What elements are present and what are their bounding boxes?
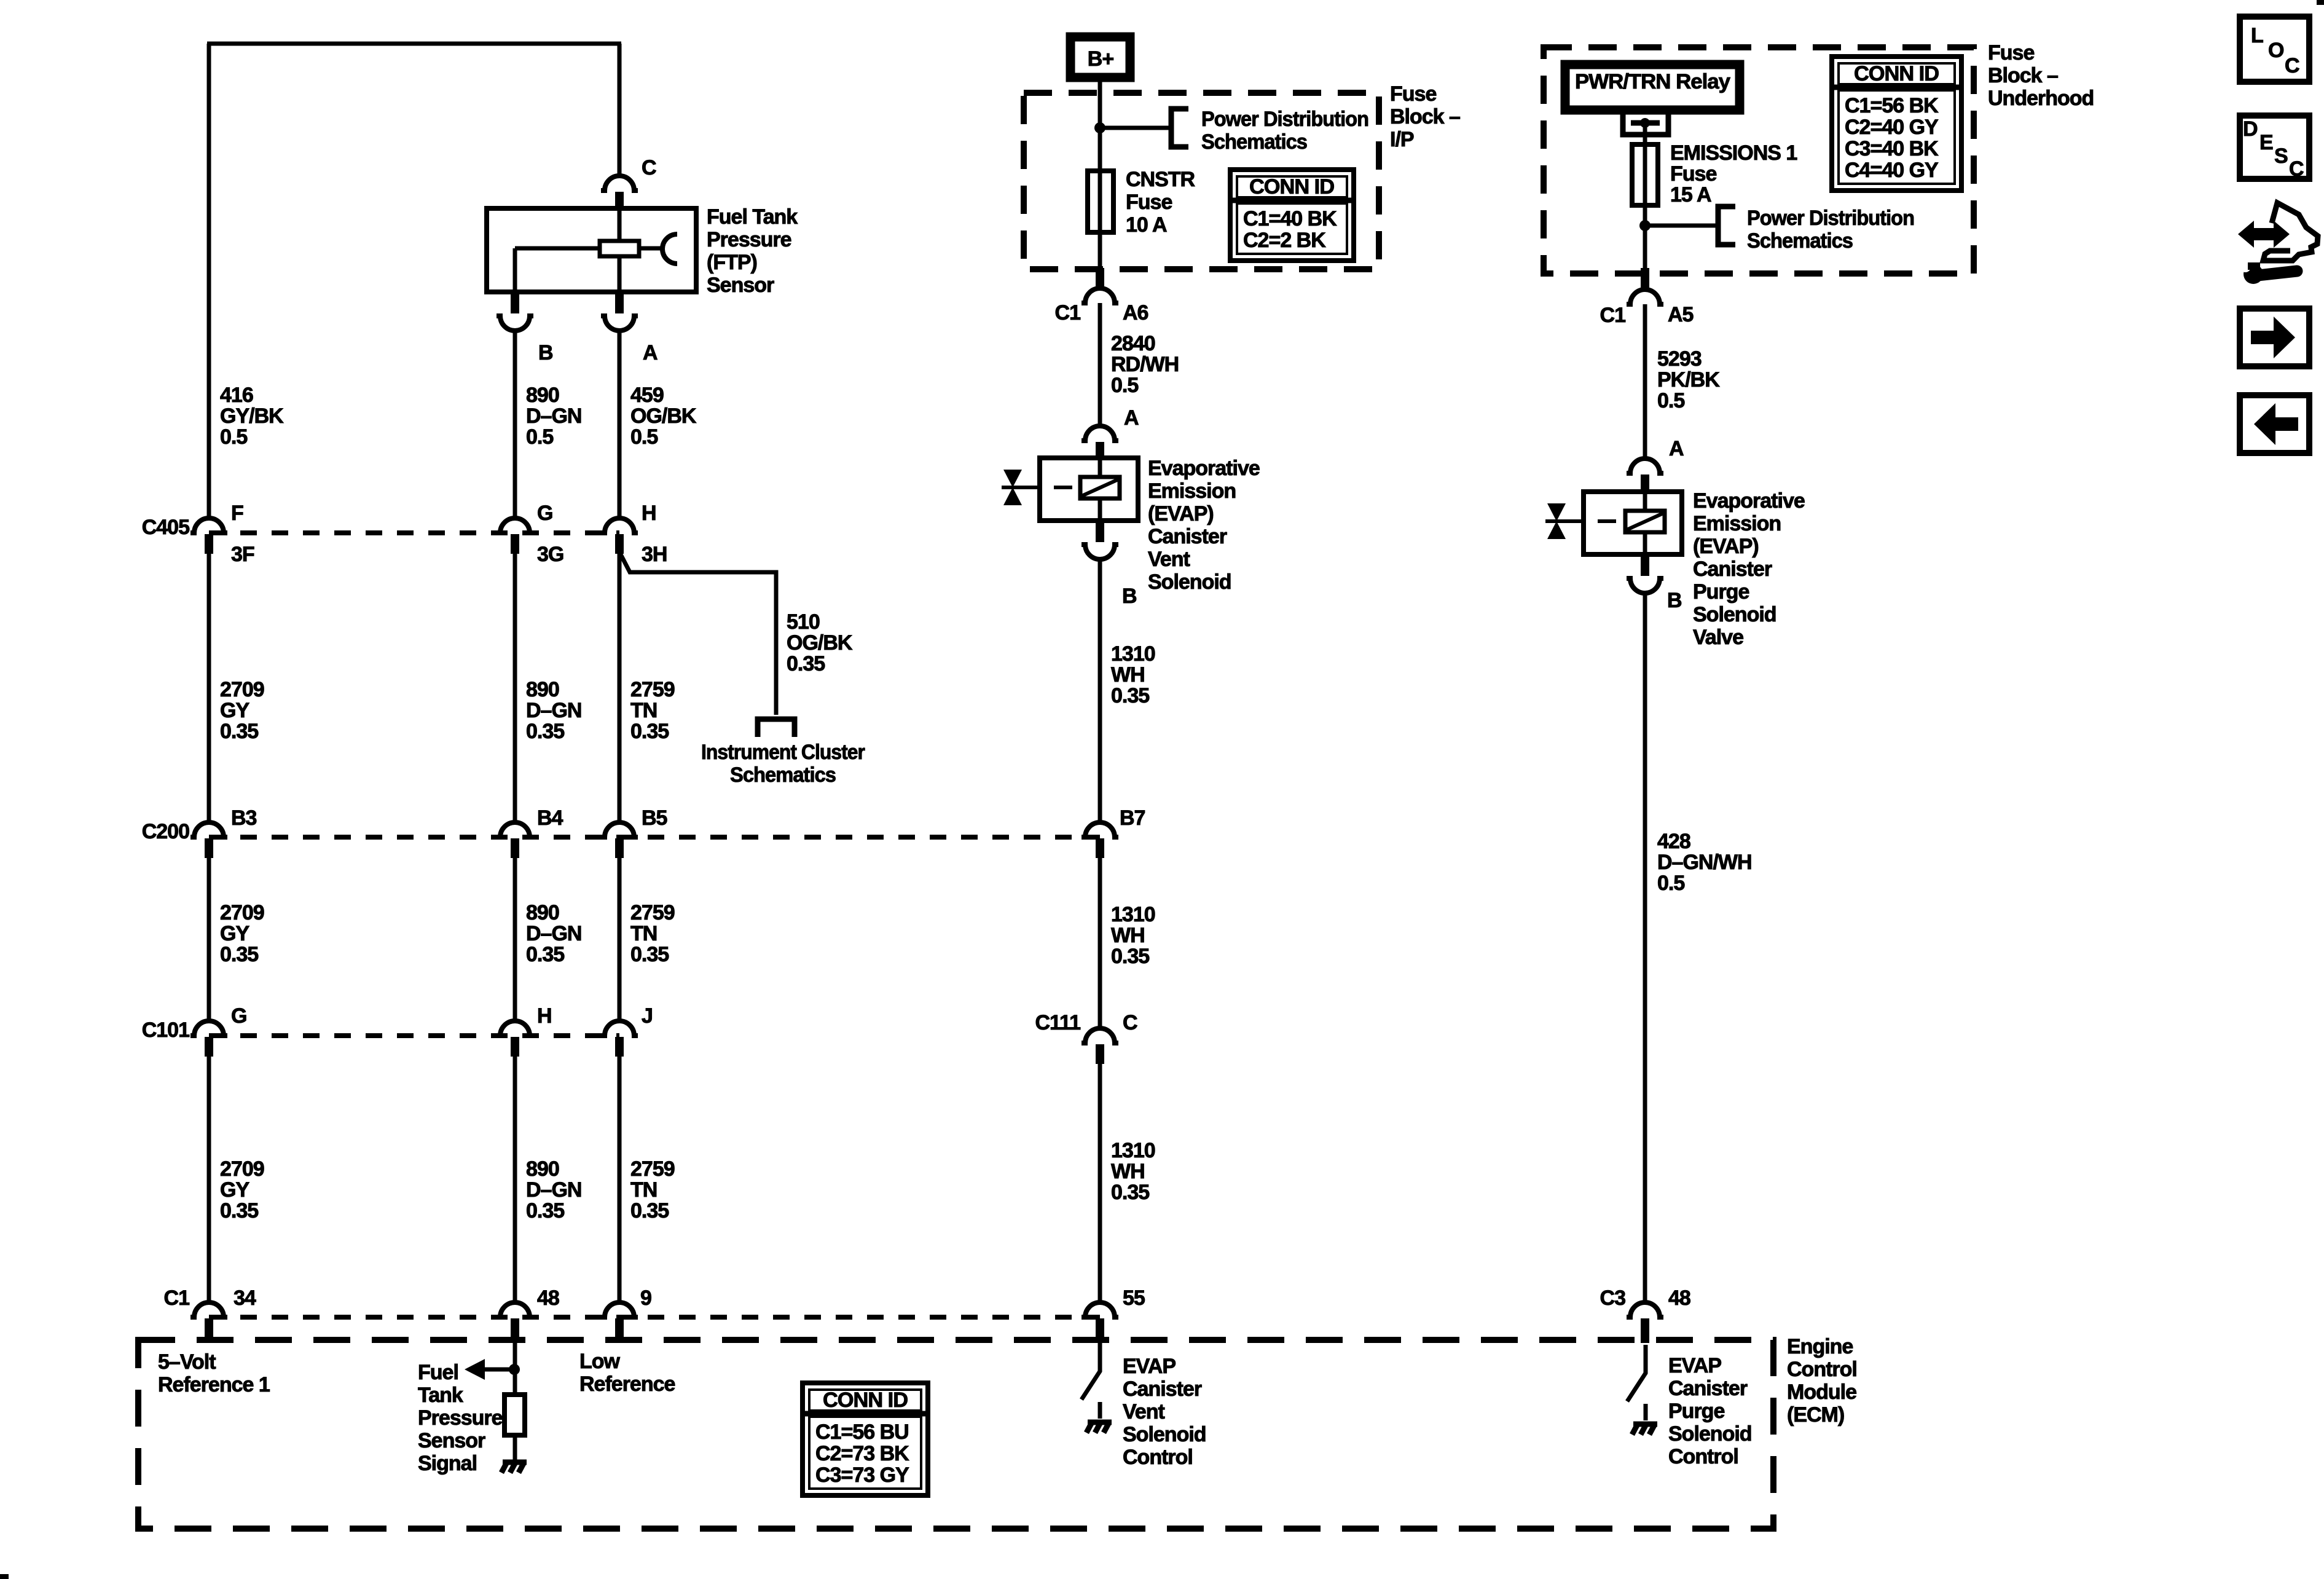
- svg-text:A6: A6: [1123, 301, 1148, 325]
- ground: vent solenoid control driver: [1086, 1422, 1112, 1433]
- label: EMISSIONS 1 Fuse 15 A: [1670, 141, 1797, 207]
- svg-text:GY: GY: [220, 922, 249, 945]
- svg-text:CONN ID: CONN ID: [1854, 62, 1939, 85]
- svg-text:Vent: Vent: [1123, 1400, 1164, 1423]
- svg-text:WH: WH: [1111, 1160, 1145, 1183]
- svg-text:C1=56 BU: C1=56 BU: [815, 1420, 909, 1444]
- wire: ECM pin 48 to internal pull-up resistor: [513, 1342, 517, 1395]
- svg-text:2840: 2840: [1111, 332, 1155, 355]
- svg-text:C405: C405: [142, 516, 189, 539]
- icon: arrow previous page: [2240, 395, 2309, 453]
- wire: top jumper from 5V-ref column to FTP pin C column: [207, 42, 621, 46]
- connector pin B of EVAP purge solenoid: [1641, 554, 1649, 576]
- svg-text:B7: B7: [1120, 806, 1145, 830]
- svg-text:C3: C3: [1600, 1286, 1626, 1310]
- svg-text:890: 890: [526, 678, 559, 701]
- switch: EVAP canister vent solenoid control driver: [1082, 1343, 1100, 1400]
- connector C405 cavity H: [601, 518, 638, 533]
- svg-text:Tank: Tank: [418, 1384, 463, 1407]
- fuse block underhood (dashed box): [1544, 47, 1974, 274]
- svg-text:I/P: I/P: [1390, 128, 1414, 151]
- table: CONN ID (fuse block underhood): [1832, 57, 1961, 191]
- ground: FTP signal pull-up: [501, 1462, 527, 1473]
- resistor: ECM internal pull-up: [504, 1395, 525, 1435]
- svg-text:416: 416: [220, 384, 253, 407]
- wire label: 459 OG/BK 0.5: [630, 384, 697, 449]
- off-page bracket: instrument cluster schematics: [755, 719, 797, 737]
- wire 5293 PK/BK: A5 down to EVAP purge solenoid pin A: [1643, 304, 1647, 458]
- wire: junction to power distribution off-page: [1645, 224, 1718, 228]
- svg-text:Fuel: Fuel: [418, 1361, 458, 1384]
- svg-text:GY/BK: GY/BK: [220, 404, 284, 428]
- svg-text:Canister: Canister: [1668, 1377, 1748, 1400]
- PWR/TRN relay box: [1565, 65, 1740, 110]
- wire: B+ down to CNSTR fuse: [1098, 82, 1102, 171]
- svg-text:Pressure: Pressure: [418, 1406, 503, 1430]
- svg-text:890: 890: [526, 384, 559, 407]
- wire: junction to power distribution off-page: [1100, 126, 1171, 130]
- off-page reference: power distribution schematics (I/P): [1171, 109, 1188, 147]
- svg-text:48: 48: [537, 1286, 559, 1310]
- wire label: 2709 GY 0.35 (C200-C101): [220, 901, 264, 966]
- svg-text:B: B: [538, 341, 553, 364]
- svg-text:G: G: [537, 502, 552, 525]
- wire 1310 WH: C200 B7 down to C111 C: [1098, 858, 1102, 1028]
- svg-text:Engine: Engine: [1787, 1335, 1853, 1358]
- wire 890 D-GN: C101 H down to ECM pin 48: [513, 1057, 517, 1302]
- svg-text:WH: WH: [1111, 663, 1145, 687]
- svg-text:WH: WH: [1111, 924, 1145, 947]
- ECM connector C1 row (dotted): [209, 1315, 1100, 1320]
- wire: vertical down to FTP sensor pin C: [618, 44, 622, 176]
- wire label: 416 GY/BK 0.5: [220, 384, 284, 449]
- svg-text:H: H: [642, 502, 656, 525]
- wire label: 890 D-GN 0.35 (C405-C200): [526, 678, 581, 743]
- off-page reference: power distribution schematics (underhood): [1718, 207, 1735, 245]
- svg-text:J: J: [642, 1004, 653, 1028]
- wire 510 OG/BK: branch from 3H to instrument cluster: [619, 552, 776, 715]
- svg-text:TN: TN: [630, 1178, 657, 1202]
- wire label: 428 D-GN/WH 0.5: [1657, 830, 1752, 895]
- connector pin A of FTP sensor: [615, 292, 624, 313]
- ECM connector C1 pin 48: [497, 1302, 533, 1317]
- label: Fuel Tank Pressure (FTP) Sensor: [707, 205, 798, 297]
- fuse: EMISSIONS 1 Fuse 15 A: [1643, 123, 1647, 205]
- svg-text:0.5: 0.5: [1111, 374, 1138, 397]
- svg-text:15 A: 15 A: [1670, 183, 1711, 207]
- svg-text:Fuse: Fuse: [1126, 191, 1172, 214]
- connector C405 cavity G: [497, 518, 533, 533]
- svg-text:459: 459: [630, 384, 664, 407]
- wire label: 2759 TN 0.35 (C405-C200): [630, 678, 675, 743]
- svg-text:EMISSIONS 1: EMISSIONS 1: [1670, 141, 1797, 165]
- svg-text:Control: Control: [1123, 1446, 1193, 1469]
- svg-text:510: 510: [787, 610, 820, 634]
- svg-text:10 A: 10 A: [1126, 213, 1167, 237]
- svg-text:0.35: 0.35: [526, 943, 564, 966]
- svg-text:Power Distribution: Power Distribution: [1747, 207, 1914, 230]
- svg-text:2759: 2759: [630, 1157, 675, 1181]
- icon: DESC box: [2240, 116, 2309, 181]
- svg-text:3G: 3G: [537, 543, 563, 566]
- wire label: 510 OG/BK 0.35: [787, 610, 853, 675]
- label: EVAP Canister Purge Solenoid Control: [1668, 1354, 1752, 1468]
- svg-text:O: O: [2268, 39, 2284, 62]
- svg-text:(ECM): (ECM): [1787, 1403, 1844, 1427]
- label: CNSTR Fuse 10 A: [1126, 168, 1195, 237]
- svg-text:1310: 1310: [1111, 642, 1155, 666]
- svg-text:890: 890: [526, 1157, 559, 1181]
- svg-text:Reference 1: Reference 1: [158, 1373, 270, 1396]
- svg-text:B3: B3: [231, 806, 257, 830]
- svg-text:0.35: 0.35: [630, 1199, 669, 1223]
- svg-text:C1: C1: [1600, 304, 1626, 327]
- svg-text:H: H: [537, 1004, 552, 1028]
- svg-text:OG/BK: OG/BK: [787, 631, 853, 655]
- svg-text:0.35: 0.35: [787, 652, 825, 675]
- engine control module ECM (dashed box): [138, 1340, 1773, 1529]
- connector pin A of EVAP vent solenoid: [1082, 426, 1118, 441]
- svg-text:Fuse: Fuse: [1670, 162, 1716, 186]
- junction: fuse output to power distribution: [1639, 220, 1651, 231]
- label: Engine Control Module (ECM): [1787, 1335, 1857, 1427]
- relay contact symbol: [1623, 114, 1668, 135]
- wire 416 GY/BK: left vertical down to connector C405 pin F: [207, 44, 211, 518]
- svg-text:1310: 1310: [1111, 1139, 1155, 1162]
- svg-text:3H: 3H: [642, 543, 667, 566]
- label: Fuse Block - Underhood: [1988, 41, 2094, 110]
- svg-text:3F: 3F: [231, 543, 254, 566]
- wire 890 D-GN: C200 B4 down to C101 H: [513, 858, 517, 1021]
- svg-text:2759: 2759: [630, 901, 675, 924]
- svg-text:Solenoid: Solenoid: [1123, 1423, 1206, 1446]
- svg-text:0.35: 0.35: [1111, 684, 1149, 707]
- svg-text:0.35: 0.35: [220, 720, 258, 743]
- svg-text:C: C: [642, 156, 656, 179]
- svg-text:PK/BK: PK/BK: [1657, 368, 1720, 392]
- wire label: 1310 WH 0.35 (C111-ECM): [1111, 1139, 1155, 1204]
- wire 1310 WH: vent solenoid B down to C200 B7: [1098, 559, 1102, 822]
- wire 890 D-GN: FTP pin B down to C405 pin G: [513, 331, 517, 518]
- svg-text:C2=2 BK: C2=2 BK: [1243, 229, 1326, 252]
- svg-text:OG/BK: OG/BK: [630, 404, 697, 428]
- svg-text:Emission: Emission: [1148, 479, 1236, 503]
- wire 2709 GY: C200 B3 down to C101 G: [207, 858, 211, 1021]
- label: Fuse Block - I/P: [1390, 82, 1460, 151]
- svg-text:Block –: Block –: [1390, 105, 1460, 128]
- svg-text:Underhood: Underhood: [1988, 87, 2094, 110]
- svg-text:2709: 2709: [220, 1157, 264, 1181]
- svg-text:D–GN: D–GN: [526, 404, 581, 428]
- svg-text:Sensor: Sensor: [707, 274, 774, 297]
- connector pin A of EVAP purge solenoid: [1627, 459, 1663, 473]
- svg-text:GY: GY: [220, 699, 249, 722]
- valve symbol (purge solenoid): [1545, 503, 1568, 539]
- icon: vehicle data (car, double arrow, wrench): [2238, 203, 2318, 284]
- svg-text:Canister: Canister: [1148, 525, 1227, 548]
- svg-text:Low: Low: [579, 1350, 621, 1373]
- svg-text:0.35: 0.35: [220, 1199, 258, 1223]
- svg-text:TN: TN: [630, 922, 657, 945]
- signal arrow: fuel tank pressure sensor signal: [465, 1359, 514, 1380]
- svg-text:0.35: 0.35: [526, 720, 564, 743]
- svg-text:C: C: [1123, 1011, 1137, 1034]
- svg-text:1310: 1310: [1111, 903, 1155, 926]
- ground: purge solenoid control driver: [1632, 1424, 1657, 1435]
- svg-text:Sensor: Sensor: [418, 1429, 485, 1452]
- wire: CNSTR fuse to connector C1 A6: [1098, 232, 1102, 268]
- EVAP canister vent solenoid (coil): [1022, 458, 1138, 521]
- svg-text:Signal: Signal: [418, 1452, 477, 1475]
- table: CONN ID (fuse block I/P): [1230, 170, 1354, 261]
- wire 2759 TN: C405 H down to C200 B5: [618, 554, 622, 822]
- svg-text:5293: 5293: [1657, 347, 1702, 371]
- wire label: 2840 RD/WH 0.5: [1111, 332, 1179, 397]
- svg-text:Control: Control: [1668, 1445, 1738, 1468]
- connector C405 cavity F: [190, 518, 227, 533]
- svg-text:890: 890: [526, 901, 559, 924]
- label: 5-Volt Reference 1: [158, 1350, 270, 1396]
- svg-text:S: S: [2274, 144, 2288, 168]
- fuse: CNSTR Fuse 10 A: [1088, 171, 1113, 232]
- svg-text:Valve: Valve: [1693, 626, 1743, 649]
- svg-text:2709: 2709: [220, 678, 264, 701]
- svg-text:Schematics: Schematics: [730, 763, 836, 787]
- svg-text:D–GN: D–GN: [526, 922, 581, 945]
- svg-text:C1: C1: [1055, 301, 1081, 325]
- svg-text:0.35: 0.35: [1111, 945, 1149, 968]
- svg-text:A5: A5: [1668, 303, 1694, 326]
- connector C101 cavity G: [190, 1021, 227, 1036]
- wire label: 2759 TN 0.35 (C101-ECM): [630, 1157, 675, 1223]
- svg-text:0.5: 0.5: [630, 425, 658, 449]
- connector C200 cavity B5: [601, 822, 638, 837]
- battery feed B+ symbol: [1070, 37, 1130, 77]
- wire 2759 TN: C101 J down to ECM pin 9: [618, 1057, 622, 1302]
- connector C200 cavity B4: [497, 822, 533, 837]
- svg-text:Fuel Tank: Fuel Tank: [707, 205, 798, 229]
- svg-text:Schematics: Schematics: [1201, 130, 1307, 154]
- svg-text:9: 9: [640, 1286, 651, 1310]
- svg-text:Canister: Canister: [1693, 557, 1772, 581]
- ECM connector C1 pin 34: [190, 1302, 227, 1317]
- label: EVAP Canister Purge Solenoid Valve: [1693, 489, 1805, 649]
- svg-text:RD/WH: RD/WH: [1111, 353, 1179, 376]
- svg-text:Instrument Cluster: Instrument Cluster: [701, 741, 865, 764]
- svg-text:C2=40 GY: C2=40 GY: [1845, 116, 1939, 139]
- svg-text:Purge: Purge: [1693, 580, 1749, 604]
- svg-text:2759: 2759: [630, 678, 675, 701]
- connector C101 cavity H: [497, 1021, 533, 1036]
- connector C111 cavity C (in-line): [1082, 1028, 1118, 1043]
- svg-text:D–GN: D–GN: [526, 1178, 581, 1202]
- svg-text:Module: Module: [1787, 1380, 1856, 1404]
- svg-text:Emission: Emission: [1693, 512, 1781, 535]
- wire label: 2709 GY 0.35 (C101-ECM): [220, 1157, 264, 1223]
- connector C1 cavity A5 (fuse block underhood): [1641, 268, 1649, 289]
- ECM connector C3 pin 48: [1627, 1302, 1663, 1317]
- svg-text:C3=73 GY: C3=73 GY: [815, 1463, 909, 1487]
- wire label: 2759 TN 0.35 (C200-C101): [630, 901, 675, 966]
- wire label: 1310 WH 0.35 (B-B7): [1111, 642, 1155, 707]
- svg-text:2709: 2709: [220, 901, 264, 924]
- svg-text:(EVAP): (EVAP): [1693, 535, 1759, 558]
- svg-text:C2=73 BK: C2=73 BK: [815, 1442, 909, 1465]
- label: EVAP Canister Vent Solenoid: [1148, 457, 1260, 594]
- svg-text:48: 48: [1668, 1286, 1690, 1310]
- wire label: 5293 PK/BK 0.5: [1657, 347, 1720, 412]
- svg-text:(EVAP): (EVAP): [1148, 502, 1214, 526]
- svg-text:A: A: [1124, 406, 1139, 430]
- svg-text:E: E: [2259, 131, 2273, 154]
- connector C405 row (dashed in-line connector): [209, 530, 619, 535]
- svg-text:F: F: [231, 502, 243, 525]
- connector C200 row (dashed in-line connector): [209, 835, 1100, 840]
- svg-text:CONN ID: CONN ID: [1249, 175, 1334, 199]
- wire label: 890 D-GN 0.5: [526, 384, 581, 449]
- wire: driver to ground (vent control): [1098, 1402, 1102, 1419]
- connector C101 cavity J: [601, 1021, 638, 1036]
- svg-text:A: A: [643, 341, 658, 364]
- wire 2709 GY: C101 G down to ECM pin 34: [207, 1057, 211, 1302]
- wire label: 890 D-GN 0.35 (C200-C101): [526, 901, 581, 966]
- page corner mark (bottom-left): [0, 1574, 9, 1579]
- svg-text:Control: Control: [1787, 1358, 1857, 1381]
- svg-text:0.35: 0.35: [526, 1199, 564, 1223]
- svg-text:Solenoid: Solenoid: [1668, 1422, 1752, 1446]
- svg-text:C: C: [2289, 157, 2304, 181]
- connector pin B of EVAP vent solenoid: [1096, 521, 1104, 542]
- svg-text:C1=56 BK: C1=56 BK: [1845, 94, 1939, 117]
- svg-text:Fuse: Fuse: [1390, 82, 1436, 106]
- svg-text:Fuse: Fuse: [1988, 41, 2034, 65]
- table: CONN ID (ECM): [803, 1383, 928, 1495]
- svg-text:Schematics: Schematics: [1747, 229, 1853, 253]
- svg-text:Evaporative: Evaporative: [1148, 457, 1260, 480]
- svg-text:A: A: [1669, 437, 1684, 460]
- svg-text:Block –: Block –: [1988, 64, 2058, 87]
- svg-text:0.35: 0.35: [220, 943, 258, 966]
- svg-text:TN: TN: [630, 699, 657, 722]
- svg-text:0.35: 0.35: [1111, 1181, 1149, 1204]
- svg-text:C: C: [2285, 54, 2299, 77]
- svg-text:0.35: 0.35: [630, 720, 669, 743]
- wire label: 2709 GY 0.35 (C405-C200): [220, 678, 264, 743]
- ECM connector C1 pin 9: [601, 1302, 638, 1317]
- wire: driver to ground (purge control): [1644, 1404, 1648, 1420]
- svg-text:B4: B4: [537, 806, 563, 830]
- svg-text:Power Distribution: Power Distribution: [1201, 108, 1368, 131]
- fuse block I/P (dashed box): [1024, 93, 1379, 269]
- svg-text:0.5: 0.5: [1657, 389, 1684, 412]
- icon: arrow next page: [2240, 309, 2309, 366]
- svg-text:Solenoid: Solenoid: [1693, 603, 1776, 626]
- svg-text:34: 34: [234, 1286, 256, 1310]
- svg-text:C1=40 BK: C1=40 BK: [1243, 207, 1337, 230]
- svg-text:CNSTR: CNSTR: [1126, 168, 1195, 191]
- wire 890 D-GN: C405 G down to C200 B4: [513, 554, 517, 822]
- wire label: 1310 WH 0.35 (B7-C111): [1111, 903, 1155, 968]
- svg-text:D–GN/WH: D–GN/WH: [1657, 851, 1752, 874]
- svg-text:0.5: 0.5: [526, 425, 553, 449]
- svg-text:EVAP: EVAP: [1668, 1354, 1721, 1377]
- wire: EMISSIONS 1 fuse to junction: [1643, 205, 1647, 226]
- svg-text:B: B: [1667, 589, 1682, 612]
- svg-text:Vent: Vent: [1148, 548, 1190, 571]
- label: Fuel Tank Pressure Sensor Signal: [418, 1361, 503, 1475]
- svg-text:L: L: [2251, 24, 2263, 47]
- wire 1310 WH: C111 C down to ECM pin 55: [1098, 1064, 1102, 1302]
- svg-text:0.5: 0.5: [1657, 872, 1684, 895]
- svg-text:C200: C200: [142, 820, 189, 843]
- EVAP canister purge solenoid valve (coil): [1566, 492, 1682, 554]
- wire label: 890 D-GN 0.35 (C101-ECM): [526, 1157, 581, 1223]
- wire 2840 RD/WH: A6 down to EVAP vent solenoid pin A: [1098, 303, 1102, 426]
- svg-text:C4=40 GY: C4=40 GY: [1845, 159, 1939, 182]
- label: EVAP Canister Vent Solenoid Control: [1123, 1355, 1206, 1469]
- svg-text:B: B: [1122, 585, 1137, 608]
- svg-text:C111: C111: [1035, 1011, 1080, 1034]
- valve symbol (vent solenoid): [1002, 470, 1024, 505]
- svg-text:B5: B5: [642, 806, 667, 830]
- wire: resistor to ground: [513, 1435, 517, 1460]
- svg-text:0.5: 0.5: [220, 425, 247, 449]
- connector pin C of FTP sensor: [601, 176, 638, 191]
- connector C101 row (dashed in-line connector): [209, 1033, 619, 1038]
- svg-text:5–Volt: 5–Volt: [158, 1350, 216, 1374]
- svg-text:Purge: Purge: [1668, 1400, 1724, 1423]
- svg-text:C101: C101: [142, 1018, 189, 1042]
- wire 459 OG/BK: FTP pin A down to C405 pin H: [618, 331, 622, 518]
- ECM connector C1 pin 55: [1082, 1302, 1118, 1317]
- fuel tank pressure (FTP) sensor: [487, 208, 696, 292]
- svg-text:EVAP: EVAP: [1123, 1355, 1176, 1378]
- connector pin B of FTP sensor: [511, 292, 519, 313]
- icon: LOC box: [2240, 17, 2309, 82]
- connector C200 cavity B3: [190, 822, 227, 837]
- junction: B+ feed to power distribution: [1094, 122, 1105, 133]
- connector C200 cavity B7: [1082, 822, 1118, 837]
- connector C1 cavity A6 (fuse block I/P): [1096, 268, 1104, 288]
- svg-text:B+: B+: [1088, 47, 1114, 71]
- svg-text:428: 428: [1657, 830, 1690, 853]
- svg-text:PWR/TRN Relay: PWR/TRN Relay: [1575, 70, 1730, 93]
- wire 428 D-GN/WH: purge solenoid B down to ECM pin 48 (C3): [1643, 593, 1647, 1302]
- svg-text:Canister: Canister: [1123, 1377, 1202, 1401]
- svg-text:D–GN: D–GN: [526, 699, 581, 722]
- svg-text:Reference: Reference: [579, 1372, 675, 1396]
- svg-text:Evaporative: Evaporative: [1693, 489, 1805, 513]
- svg-text:0.35: 0.35: [630, 943, 669, 966]
- switch: EVAP canister purge solenoid control driver: [1627, 1345, 1646, 1401]
- svg-text:Solenoid: Solenoid: [1148, 570, 1231, 594]
- svg-text:CONN ID: CONN ID: [823, 1388, 908, 1412]
- svg-text:55: 55: [1123, 1286, 1145, 1310]
- label: Low Reference: [579, 1350, 675, 1396]
- page corner mark (top-right): [2317, 0, 2324, 5]
- svg-text:C3=40 BK: C3=40 BK: [1845, 137, 1939, 160]
- wire 2709 GY: C405 F down to C200 B3: [207, 554, 211, 822]
- wire 2759 TN: C200 B5 down to C101 J: [618, 858, 622, 1021]
- svg-text:G: G: [231, 1004, 246, 1028]
- svg-text:Pressure: Pressure: [707, 228, 791, 251]
- svg-text:C1: C1: [164, 1286, 190, 1310]
- svg-text:(FTP): (FTP): [707, 251, 757, 274]
- svg-text:GY: GY: [220, 1178, 249, 1202]
- wire: junction down to connector C1 A5: [1643, 226, 1647, 268]
- svg-text:D: D: [2243, 117, 2258, 141]
- junction: FTP signal node: [509, 1364, 520, 1375]
